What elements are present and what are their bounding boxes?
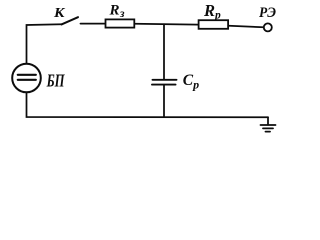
svg-text:К: К (53, 6, 66, 21)
svg-text:РЭ: РЭ (259, 5, 277, 21)
ground symbol (261, 124, 276, 126)
ground stub (267, 117, 269, 125)
wire: Rp to terminal РЭ (229, 26, 264, 28)
wire: source bottom to bottom rail (27, 92, 269, 117)
capacitor Cp top plate (153, 79, 177, 81)
svg-text:Rр: Rр (203, 1, 221, 22)
node: capacitor branch, wire from top rail (163, 24, 165, 79)
svg-text:Rз: Rз (109, 2, 126, 19)
svg-text:Ср: Ср (183, 72, 199, 91)
wire: capacitor to bottom rail (163, 85, 165, 117)
terminal РЭ (264, 23, 272, 31)
switch K blade (62, 17, 79, 24)
power source DC bars (18, 74, 36, 76)
resistor Rp (199, 20, 229, 29)
resistor R3 (106, 19, 135, 27)
power source БП circle (12, 64, 41, 93)
wire: top-left corner horizontal (source to switch) (27, 24, 63, 64)
wire: R3 to Rp through node (135, 23, 198, 26)
capacitor Cp bottom plate (152, 84, 176, 86)
wire: switch to resistor R3 (81, 23, 106, 25)
svg-text:БП: БП (46, 71, 65, 91)
